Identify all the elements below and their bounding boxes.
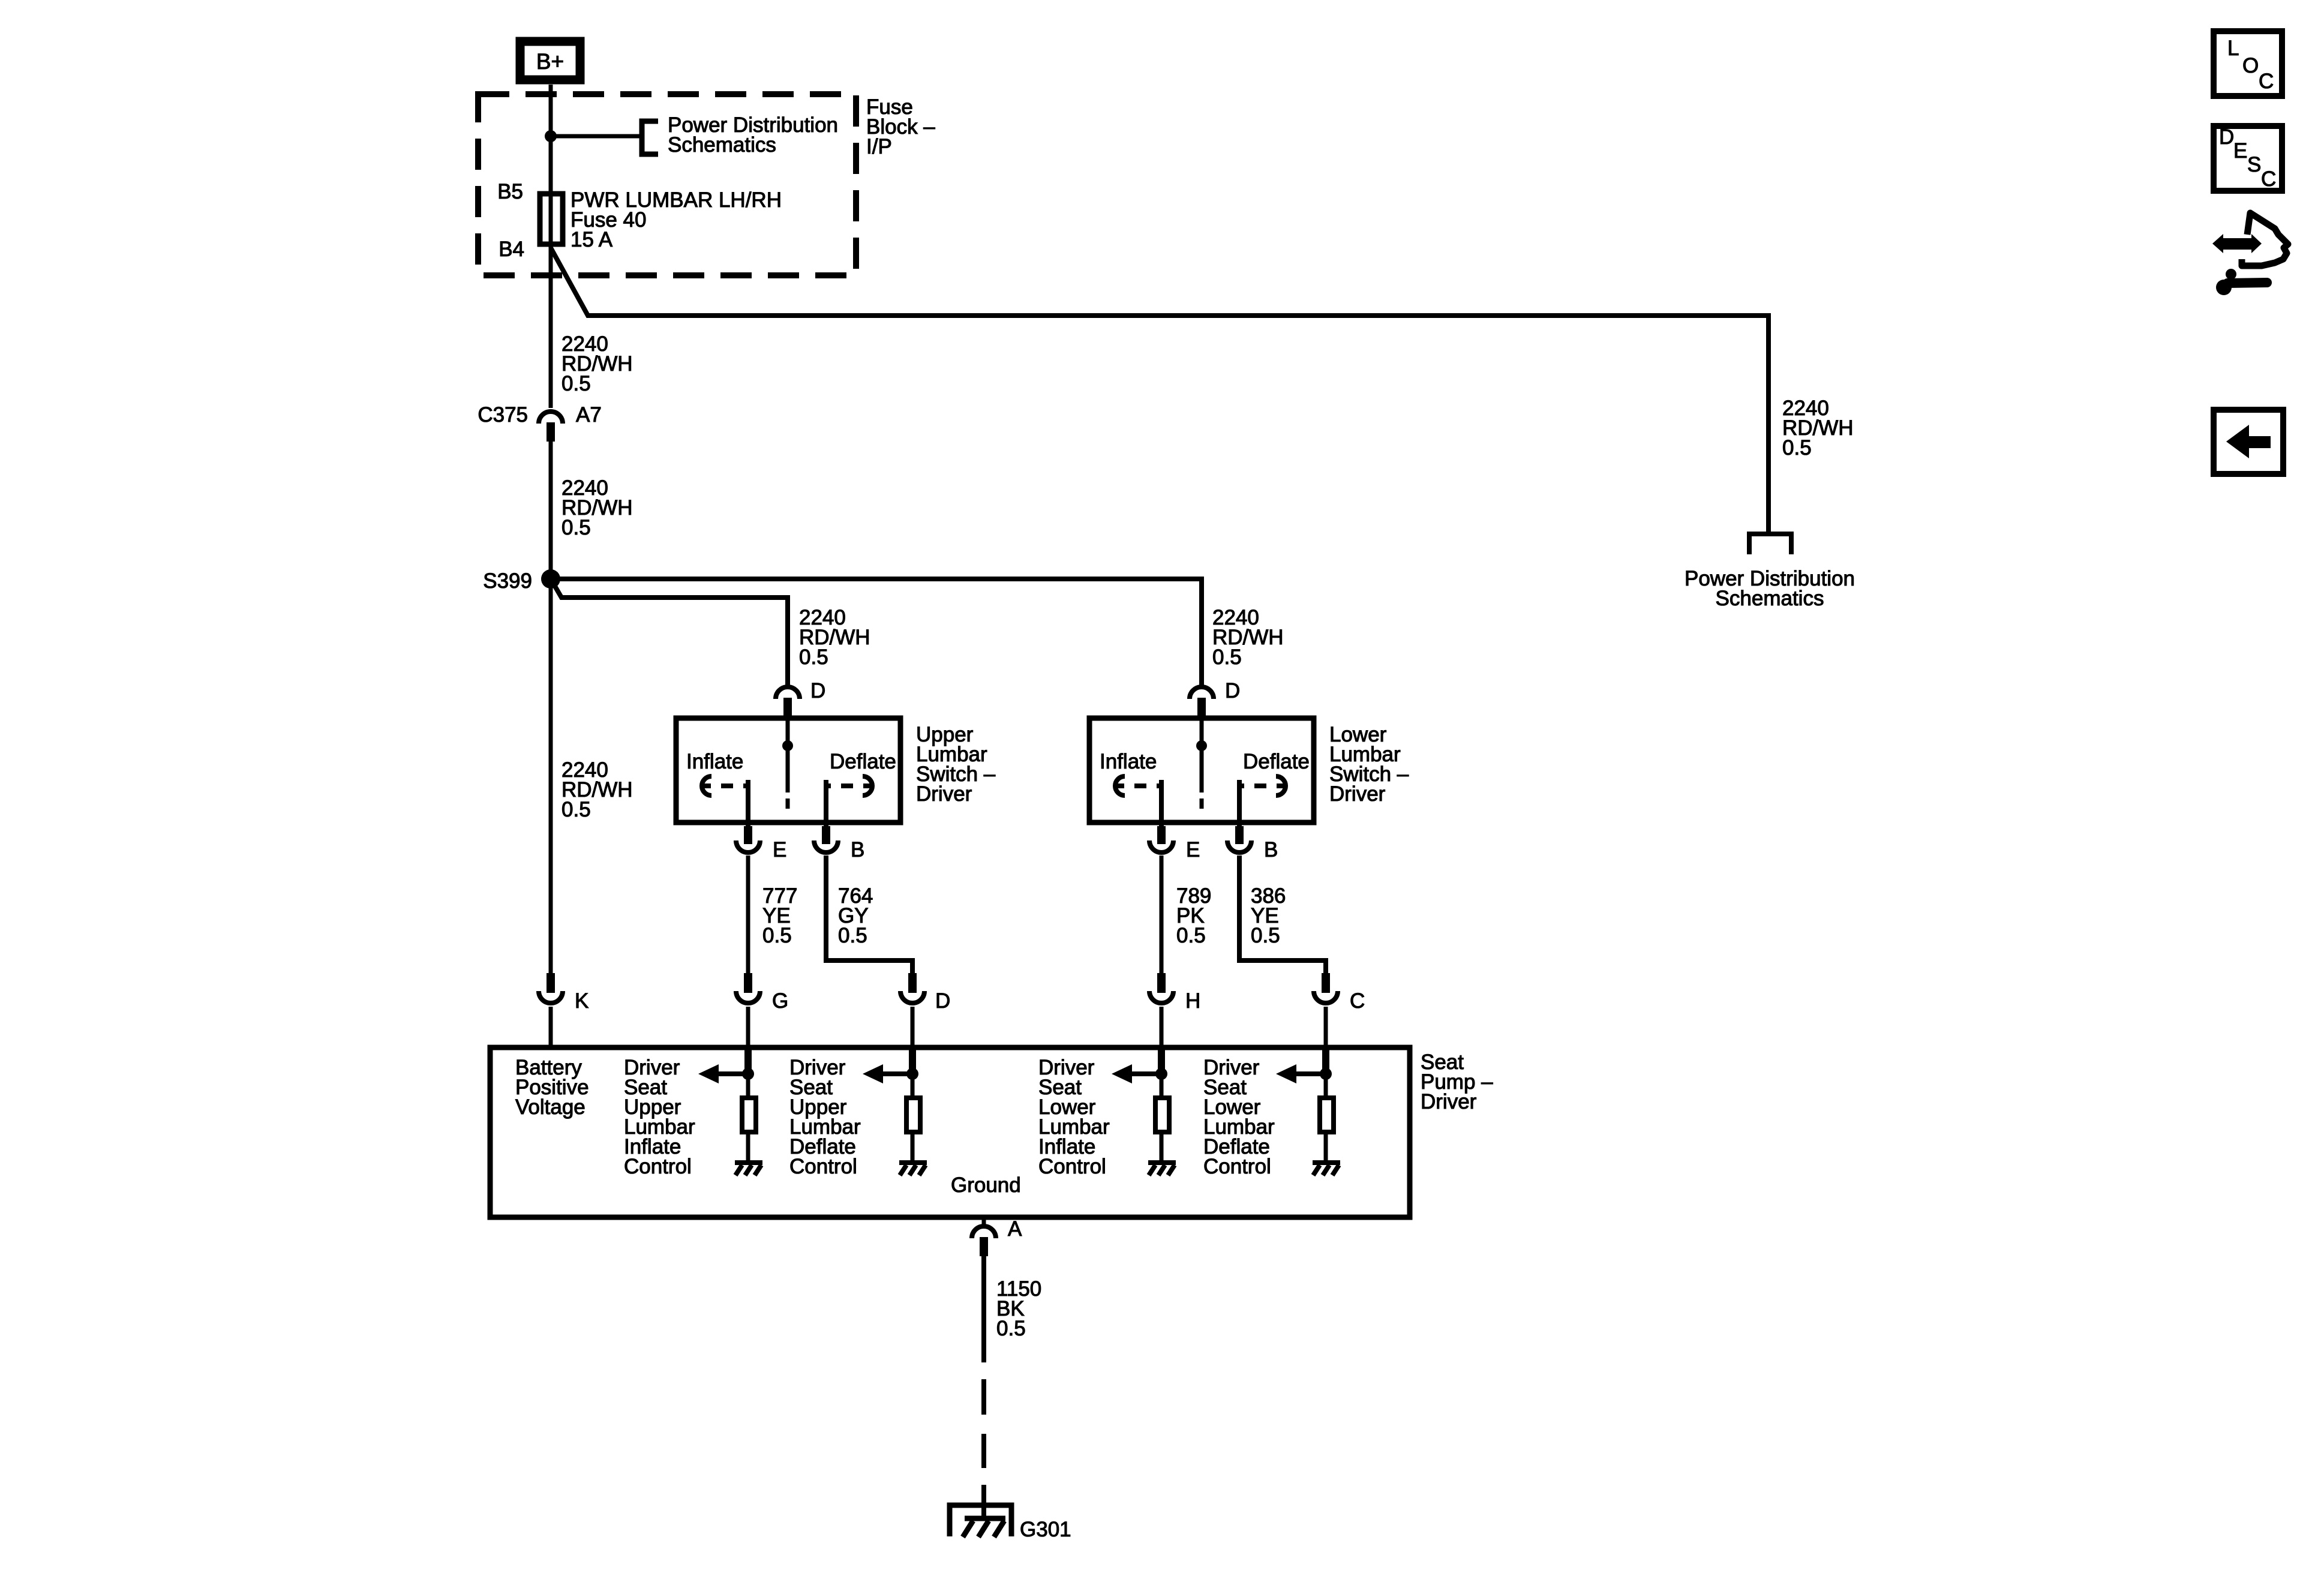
label driver seat upper lumbar deflate control [789, 1056, 861, 1178]
label 2240 RD/WH 0.5 below C375 [562, 476, 633, 539]
lower lumbar deflate driver branch [1276, 1047, 1340, 1175]
connector C pump [1314, 973, 1338, 1046]
svg-text:Schematics: Schematics [668, 133, 776, 157]
svg-text:K: K [575, 989, 588, 1013]
label 1150 BK 0.5 [996, 1277, 1041, 1340]
tap bracket power distribution schematics [642, 121, 658, 154]
lower lumbar inflate driver branch [1112, 1047, 1176, 1175]
svg-text:B+: B+ [536, 49, 564, 74]
svg-text:Schematics: Schematics [1716, 587, 1824, 610]
connector A [972, 1217, 996, 1256]
upper switch pole [782, 721, 793, 809]
label 777 YE 0.5 [762, 884, 797, 947]
connector B lower [1227, 826, 1251, 852]
label 789 PK 0.5 [1176, 884, 1211, 947]
svg-text:O: O [2242, 54, 2259, 77]
lower lumbar switch box [1089, 718, 1314, 822]
svg-text:0.5: 0.5 [762, 924, 792, 947]
svg-text:D: D [810, 679, 825, 703]
label PWR LUMBAR LH/RH Fuse 40 15 A [571, 188, 782, 251]
connector H [1149, 973, 1173, 1046]
label 2240 RD/WH 0.5 upper switch feed [799, 606, 870, 669]
upper lumbar deflate driver branch [863, 1047, 927, 1175]
connector G [736, 973, 760, 1046]
label driver seat upper lumbar inflate control [624, 1056, 695, 1178]
ground G301 [950, 1505, 1011, 1537]
icon harness double arrow [2212, 234, 2262, 253]
svg-text:0.5: 0.5 [799, 646, 828, 669]
label driver seat lower lumbar deflate control [1203, 1056, 1275, 1178]
svg-text:H: H [1185, 989, 1200, 1013]
label Lower Lumbar Switch - Driver [1329, 723, 1409, 806]
svg-text:B: B [851, 838, 864, 861]
svg-text:Deflate: Deflate [830, 750, 896, 773]
connector E lower [1149, 826, 1173, 852]
upper lumbar inflate driver branch [698, 1047, 762, 1175]
icon connector outline [2242, 213, 2288, 266]
svg-text:Inflate: Inflate [686, 750, 743, 773]
wire B+ through fuse to C375 [549, 85, 553, 408]
power symbol B+ [520, 41, 580, 80]
wire S399 to upper switch D [551, 579, 788, 685]
svg-text:E: E [2233, 139, 2247, 163]
svg-text:15 A: 15 A [571, 228, 613, 251]
upper lumbar switch box [676, 718, 900, 822]
label Fuse Block - I/P [866, 95, 935, 158]
wire S399 to lower switch D [551, 579, 1202, 685]
svg-text:0.5: 0.5 [562, 798, 591, 821]
label 386 YE 0.5 [1251, 884, 1286, 947]
svg-text:D: D [935, 989, 950, 1013]
svg-text:B: B [1264, 838, 1278, 861]
svg-text:Voltage: Voltage [515, 1095, 585, 1119]
svg-text:0.5: 0.5 [996, 1317, 1026, 1340]
wire B upper to D pump [826, 855, 912, 973]
connector K [539, 973, 563, 1046]
connector C375 A7 [539, 412, 563, 442]
icon LOC box [2214, 31, 2282, 96]
connector B upper [814, 826, 838, 852]
svg-text:C: C [2261, 167, 2276, 191]
svg-text:L: L [2227, 37, 2239, 60]
svg-text:C375: C375 [478, 403, 528, 427]
svg-text:Deflate: Deflate [1243, 750, 1310, 773]
off-page connector to power distribution schematics [1749, 534, 1791, 554]
label 2240 RD/WH 0.5 above C375 [562, 332, 633, 395]
svg-text:I/P: I/P [866, 135, 892, 158]
svg-text:A: A [1008, 1217, 1022, 1241]
seat pump box [490, 1047, 1410, 1217]
wire E upper to G [746, 855, 750, 973]
svg-text:0.5: 0.5 [562, 516, 591, 539]
label Seat Pump - Driver [1421, 1050, 1493, 1113]
connector D upper switch [776, 687, 800, 721]
svg-text:Inflate: Inflate [1100, 750, 1157, 773]
svg-text:0.5: 0.5 [1176, 924, 1206, 947]
svg-text:D: D [2219, 125, 2234, 149]
svg-text:E: E [773, 838, 786, 861]
svg-text:Control: Control [789, 1155, 857, 1178]
icon wrench [2216, 269, 2267, 295]
svg-text:C: C [1350, 989, 1365, 1013]
inflate contact lower [1115, 776, 1161, 827]
label 2240 RD/WH 0.5 lower switch feed [1212, 606, 1284, 669]
icon back arrow box [2214, 410, 2283, 474]
fuse block I/P dashed box [478, 94, 856, 275]
svg-text:0.5: 0.5 [562, 372, 591, 395]
label 2240 RD/WH 0.5 main run [562, 758, 633, 821]
svg-text:E: E [1186, 838, 1200, 861]
connector D lower switch [1190, 687, 1214, 721]
lower switch pole [1196, 721, 1207, 809]
junction dot in fuse block [545, 130, 557, 142]
svg-text:Driver: Driver [1329, 782, 1386, 806]
svg-text:0.5: 0.5 [1212, 646, 1242, 669]
svg-text:0.5: 0.5 [838, 924, 867, 947]
fuse 40 element [540, 194, 563, 244]
svg-text:G: G [772, 989, 788, 1013]
svg-text:S399: S399 [483, 569, 532, 593]
wire to power distribution tap [551, 134, 639, 139]
svg-text:0.5: 0.5 [1782, 436, 1812, 460]
wire E lower to H [1160, 855, 1164, 973]
label driver seat lower lumbar inflate control [1038, 1056, 1110, 1178]
wire A to G301 [981, 1256, 986, 1520]
connector E upper [736, 826, 760, 852]
svg-text:0.5: 0.5 [1251, 924, 1280, 947]
svg-text:S: S [2247, 153, 2261, 176]
svg-text:Control: Control [1203, 1155, 1271, 1178]
wire B lower to C pump [1239, 855, 1326, 973]
label Battery Positive Voltage [515, 1056, 589, 1119]
svg-text:B5: B5 [497, 180, 523, 203]
svg-text:Ground: Ground [951, 1173, 1021, 1197]
label Power Distribution Schematics (bottom right) [1685, 567, 1855, 610]
svg-text:Control: Control [624, 1155, 692, 1178]
svg-text:G301: G301 [1020, 1518, 1071, 1541]
svg-text:C: C [2259, 70, 2274, 93]
label 764 GY 0.5 [838, 884, 873, 947]
svg-text:Control: Control [1038, 1155, 1106, 1178]
deflate contact lower [1239, 776, 1286, 827]
label Power Distribution Schematics (fuse block) [668, 113, 838, 157]
wire S399 to pump pin K [549, 587, 553, 973]
wire fuse B4 branch to right [551, 248, 1768, 533]
wire C375 to S399 [549, 442, 553, 575]
svg-text:Driver: Driver [916, 782, 972, 806]
splice S399 [541, 569, 560, 589]
icon DESC box [2214, 125, 2282, 191]
svg-text:A7: A7 [576, 403, 602, 427]
inflate contact upper [702, 776, 748, 827]
svg-text:Driver: Driver [1421, 1090, 1477, 1113]
connector D pump [900, 973, 924, 1046]
deflate contact upper [826, 776, 872, 827]
svg-text:B4: B4 [499, 238, 524, 261]
svg-text:D: D [1225, 679, 1240, 703]
label 2240 RD/WH 0.5 right branch [1782, 397, 1854, 460]
label Upper Lumbar Switch - Driver [916, 723, 996, 806]
